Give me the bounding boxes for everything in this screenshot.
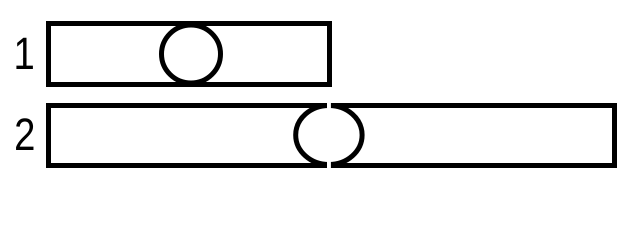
circle in bar 1 [162,25,221,83]
bar 2 outline [49,106,615,166]
circle in bar 2 [296,106,362,165]
svg-text:1: 1 [14,28,35,79]
white gap through circle 2 bottom [327,157,331,171]
white gap through circle 2 top [327,100,331,114]
bar 1 outline [49,24,330,85]
svg-text:2: 2 [14,109,35,160]
